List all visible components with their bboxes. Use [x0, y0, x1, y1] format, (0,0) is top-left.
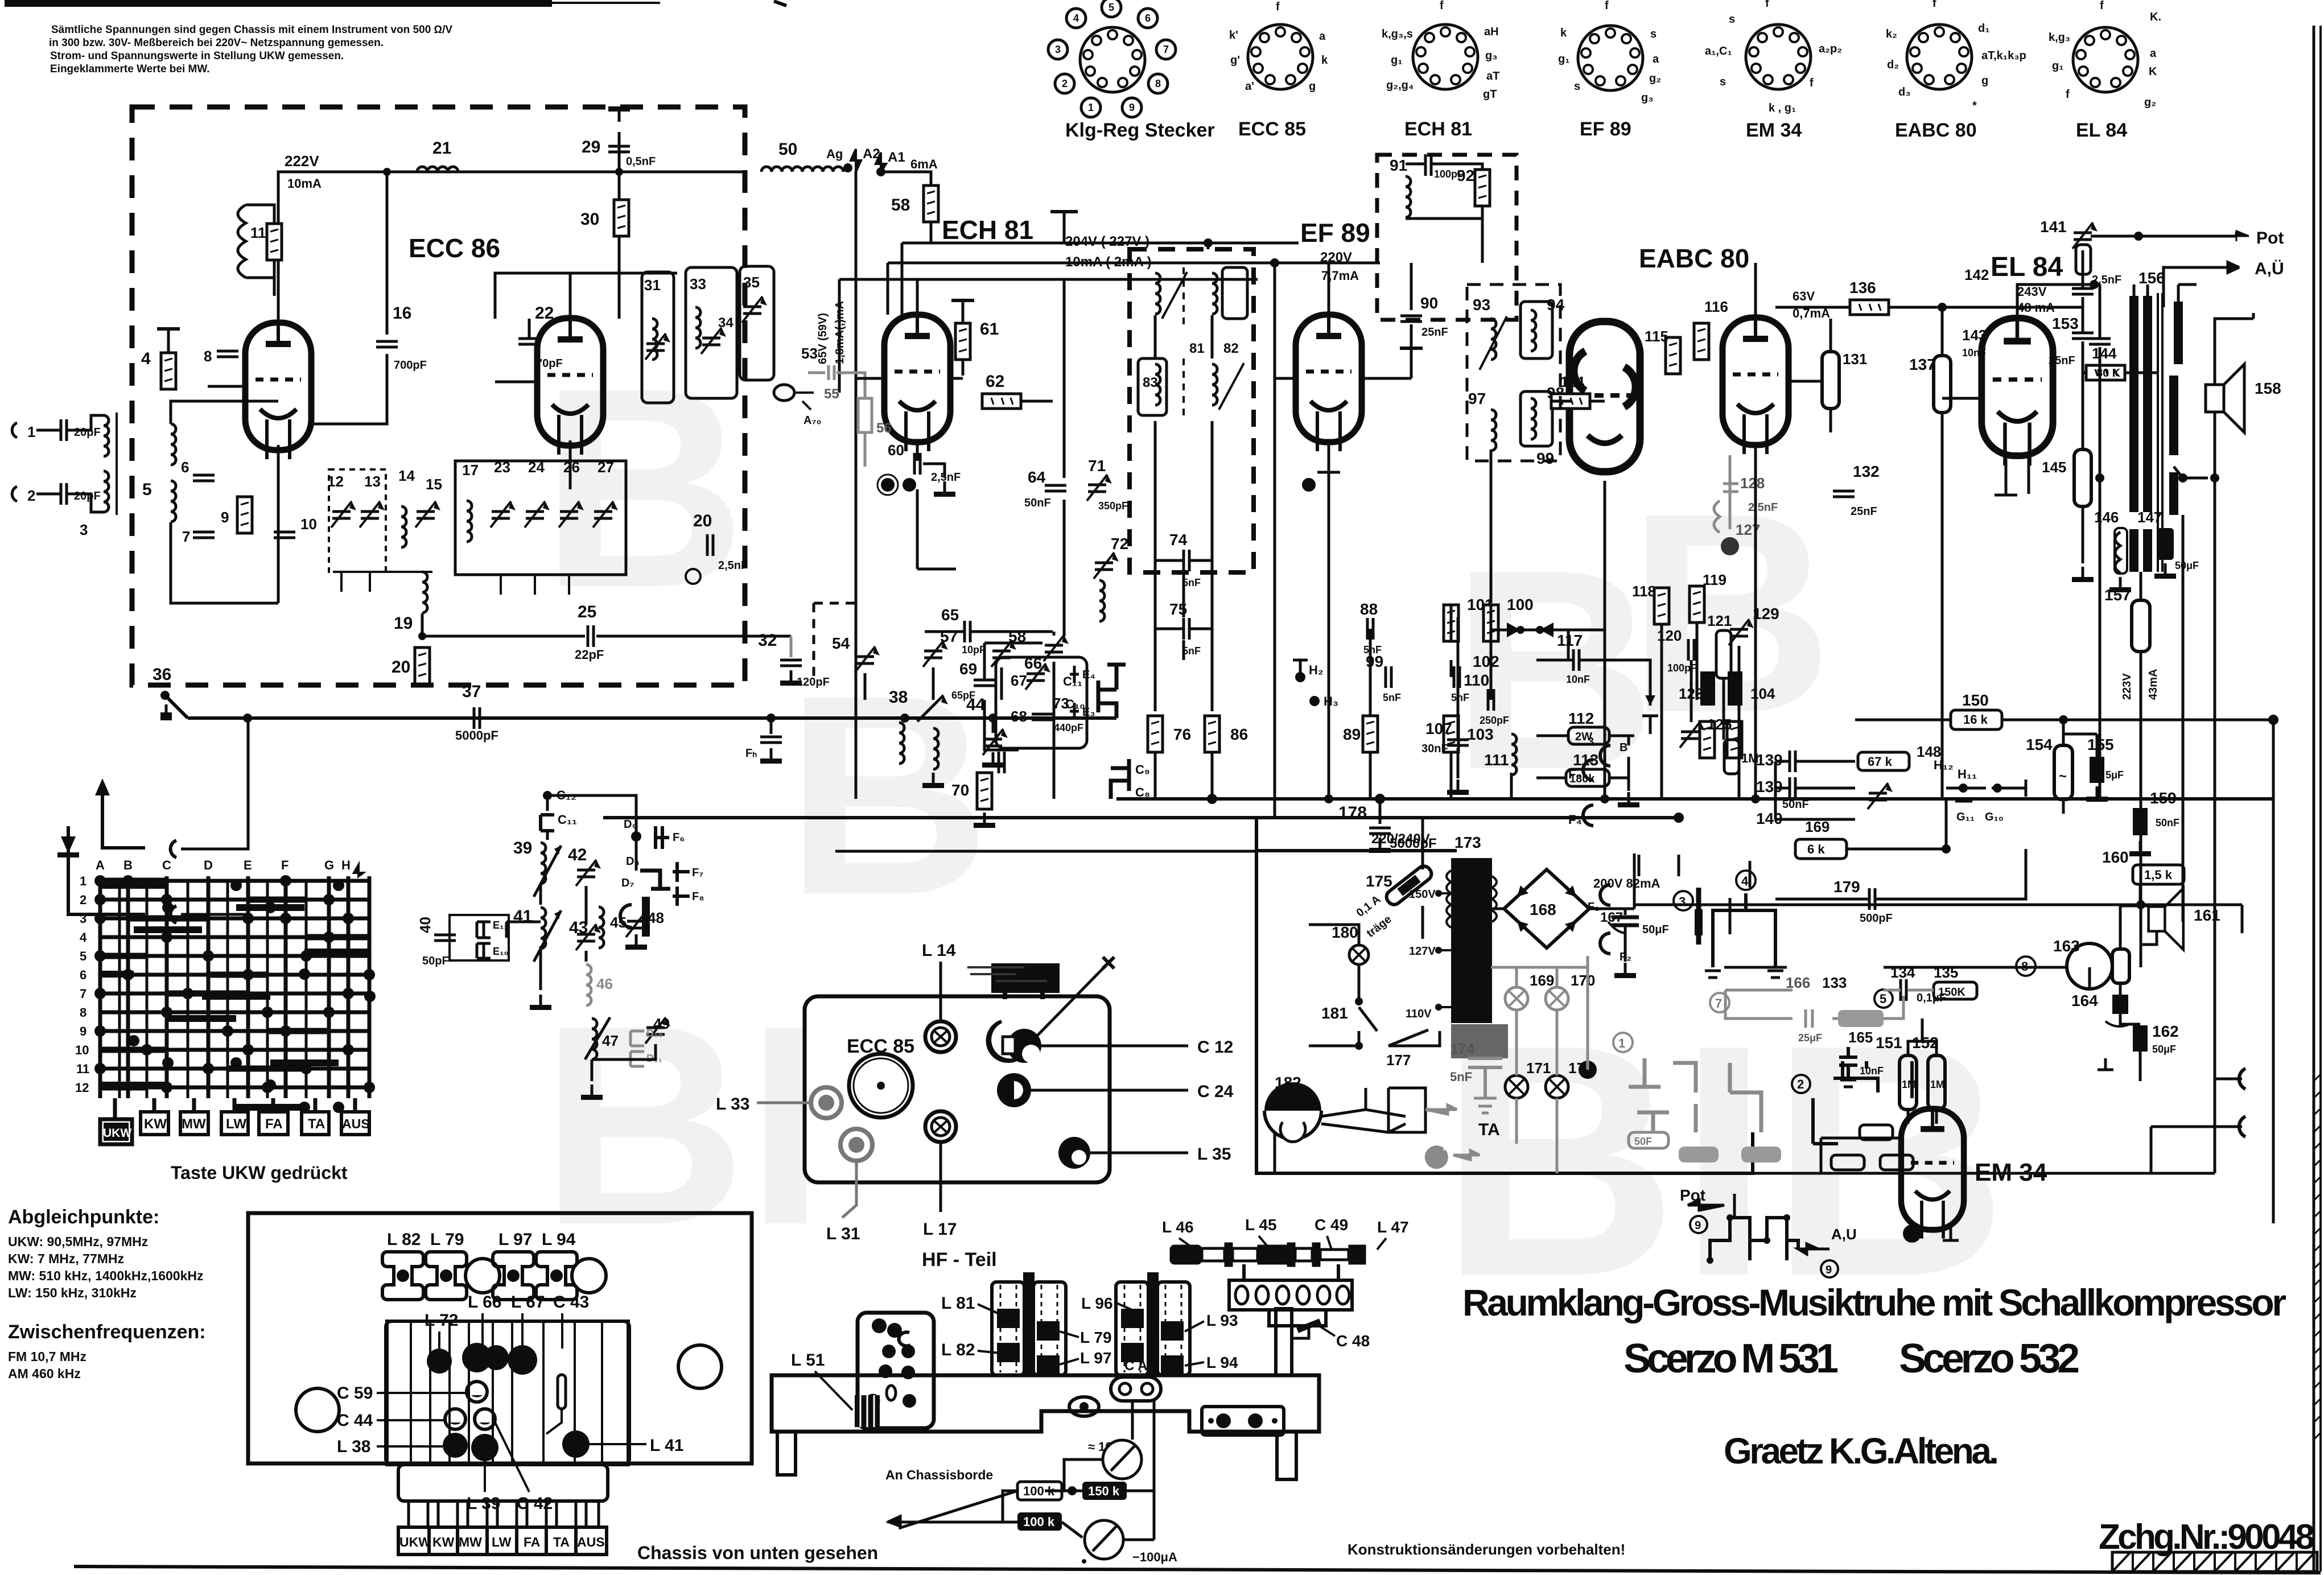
- svg-text:f: f: [1765, 0, 1769, 10]
- svg-text:BI: BI: [541, 966, 825, 1284]
- resistor 62: [982, 394, 1021, 409]
- capacitor 25: [422, 613, 791, 636]
- dashed tuner box ECC86: [132, 107, 745, 685]
- circle 163: [2067, 943, 2112, 989]
- svg-text:6: 6: [80, 968, 86, 982]
- cathode dots: [881, 478, 895, 492]
- svg-text:175: 175: [1366, 872, 1392, 890]
- svg-text:169: 169: [1805, 818, 1829, 835]
- svg-text:Eingeklammerte Werte bei M: Eingeklammerte Werte bei MW.: [50, 63, 210, 75]
- coil dots: [427, 1349, 452, 1374]
- resistor 20: [415, 648, 430, 684]
- svg-text:g₁: g₁: [1558, 53, 1570, 65]
- trimmer C12: [988, 1021, 1019, 1061]
- svg-text:EABC 80: EABC 80: [1895, 119, 1977, 141]
- svg-text:EABC 80: EABC 80: [1639, 244, 1749, 273]
- pushbutton LW: [221, 1112, 248, 1135]
- svg-text:97: 97: [1468, 390, 1486, 407]
- svg-text:133: 133: [1822, 974, 1847, 991]
- svg-text:C 44: C 44: [337, 1411, 373, 1430]
- svg-text:TA: TA: [308, 1116, 325, 1132]
- svg-text:1,5 k: 1,5 k: [2144, 868, 2173, 882]
- capacitor 120: [1688, 639, 1694, 661]
- svg-text:C 24: C 24: [1197, 1082, 1234, 1101]
- tuning capacitor block: [991, 963, 1060, 993]
- coil 91: [1406, 176, 1411, 217]
- svg-text:116: 116: [1704, 298, 1728, 315]
- wires speaker2 net: [2120, 884, 2183, 1081]
- svg-text:171: 171: [1526, 1059, 1551, 1077]
- svg-text:KW: KW: [144, 1116, 167, 1132]
- svg-text:MW: MW: [459, 1535, 482, 1549]
- svg-text:10mA: 10mA: [287, 176, 322, 191]
- svg-text:Konstruktionsänderungen vorb: Konstruktionsänderungen vorbehalten!: [1348, 1541, 1625, 1558]
- svg-text:C A: C A: [1124, 1358, 1147, 1374]
- variable cap 72: [1094, 553, 1119, 579]
- trimmer C24: [997, 1073, 1031, 1107]
- svg-text:178: 178: [1338, 803, 1367, 822]
- capacitor 29: [618, 132, 621, 172]
- svg-text:G: G: [324, 858, 334, 872]
- svg-text:a₁,C₁: a₁,C₁: [1705, 45, 1732, 57]
- resistor 121: [1716, 630, 1731, 678]
- svg-text:4: 4: [1073, 13, 1079, 24]
- svg-text:63V: 63V: [1793, 289, 1815, 303]
- grey compressor jumper network: [1629, 1058, 1761, 1132]
- top border bar: [5, 0, 552, 7]
- svg-text:~: ~: [2059, 769, 2067, 784]
- svg-text:Zwischenfrequenzen:: Zwischenfrequenzen:: [8, 1321, 206, 1343]
- svg-text:An Chassisborde: An Chassisborde: [885, 1467, 993, 1482]
- svg-text:73: 73: [1053, 695, 1069, 712]
- node A1 arrow + 6mA: [876, 152, 886, 172]
- svg-text:20pF: 20pF: [74, 490, 101, 502]
- svg-text:k , g₁: k , g₁: [1769, 102, 1796, 114]
- svg-text:40: 40: [417, 917, 434, 933]
- resistor 144: [2086, 365, 2125, 380]
- capacitor 117: [1573, 649, 1579, 671]
- svg-text:L 35: L 35: [1197, 1145, 1231, 1164]
- resistor 136: [1775, 306, 1849, 309]
- svg-text:67: 67: [1011, 672, 1027, 689]
- svg-text:16: 16: [393, 304, 411, 323]
- svg-text:L 17: L 17: [923, 1220, 957, 1239]
- svg-text:83: 83: [1143, 375, 1158, 390]
- trimmer 148 Hrg: [1868, 783, 1893, 809]
- svg-text:50μF: 50μF: [2152, 1044, 2176, 1055]
- capacitor 63/64 column: [1063, 279, 1066, 636]
- svg-text:9: 9: [1826, 1264, 1832, 1276]
- tube socket EABC 80: [1907, 24, 1972, 89]
- svg-text:4: 4: [1741, 874, 1749, 888]
- 222V supply wire: [278, 172, 745, 276]
- capacitor 40 50pF + E11 E10: [450, 915, 509, 960]
- svg-text:81: 81: [1189, 341, 1205, 356]
- diode D6 black: [642, 897, 650, 937]
- svg-text:5000pF: 5000pF: [455, 728, 498, 743]
- svg-text:11: 11: [76, 1062, 89, 1076]
- capacitor 6: [193, 475, 215, 481]
- resistor 76: [1148, 716, 1163, 752]
- svg-text:89: 89: [1343, 725, 1361, 743]
- svg-text:71: 71: [1088, 457, 1106, 475]
- resistor 100k lower dark: [1017, 1512, 1062, 1531]
- svg-text:440pF: 440pF: [1054, 722, 1083, 733]
- svg-text:L 66: L 66: [468, 1293, 502, 1312]
- svg-text:D: D: [204, 858, 213, 872]
- svg-text:48: 48: [648, 909, 664, 926]
- svg-text:145: 145: [2042, 459, 2066, 476]
- svg-text:200V 82mA: 200V 82mA: [1593, 876, 1660, 890]
- speaker 161: [2149, 888, 2183, 950]
- wire A2 down to mixer grid: [855, 172, 858, 799]
- svg-text:UKW: UKW: [103, 1127, 131, 1140]
- svg-text:56: 56: [876, 420, 892, 436]
- svg-text:115: 115: [1645, 328, 1668, 345]
- svg-text:MW: 510 kHz, 1400kHz,1600kHz: MW: 510 kHz, 1400kHz,1600kHz: [8, 1268, 203, 1283]
- chassis legs: [777, 1432, 796, 1475]
- coil 21: [417, 167, 458, 172]
- svg-text:aT: aT: [1486, 70, 1499, 83]
- svg-text:58: 58: [891, 196, 910, 215]
- oval chassis hole: [1069, 1397, 1099, 1416]
- svg-text:5nF: 5nF: [1450, 1070, 1472, 1084]
- chassis keys MW: [458, 1527, 487, 1555]
- svg-text:C 43: C 43: [553, 1293, 589, 1312]
- wire bus 37: [188, 716, 750, 720]
- svg-text:7: 7: [80, 987, 86, 1001]
- tube connection wires: [208, 279, 2029, 603]
- svg-text:F₆: F₆: [673, 831, 685, 844]
- output jacks: [2239, 1069, 2245, 1089]
- ratio detector coils 93 94: [1491, 319, 1496, 360]
- inner coil module: [387, 1321, 628, 1465]
- ground arrow: [68, 826, 145, 914]
- trimmer 129: [1729, 619, 1754, 645]
- svg-text:AUS: AUS: [342, 1116, 370, 1131]
- svg-text:13: 13: [364, 473, 381, 490]
- coil L33 grey: [811, 1087, 842, 1118]
- svg-text:4: 4: [141, 349, 151, 368]
- svg-text:25: 25: [578, 603, 596, 621]
- svg-text:19: 19: [394, 614, 413, 633]
- svg-text:164: 164: [2071, 992, 2098, 1009]
- svg-text:H₁₁: H₁₁: [1958, 767, 1977, 781]
- svg-text:159: 159: [2150, 789, 2177, 807]
- svg-text:42: 42: [568, 846, 587, 864]
- terminal strip near EM34: [1813, 1061, 1912, 1144]
- svg-text:k₂: k₂: [1886, 28, 1897, 40]
- svg-text:Scerzo 532: Scerzo 532: [1899, 1336, 2080, 1382]
- svg-text:177: 177: [1386, 1052, 1411, 1069]
- resistor 70: [977, 773, 992, 809]
- svg-text:k': k': [1229, 29, 1238, 42]
- svg-text:f: f: [1932, 0, 1936, 10]
- svg-text:14: 14: [398, 467, 415, 484]
- svg-text:1: 1: [1088, 102, 1094, 113]
- bottom tab block: [398, 1465, 608, 1501]
- svg-text:21: 21: [432, 139, 451, 158]
- svg-text:LW: LW: [226, 1116, 246, 1132]
- coil 46: [586, 964, 591, 1005]
- svg-text:6 k: 6 k: [1807, 842, 1825, 856]
- ECC85 hole: [849, 1054, 913, 1118]
- svg-text:s: s: [1574, 80, 1580, 93]
- svg-text:K: K: [2149, 65, 2157, 78]
- svg-text:150: 150: [1962, 691, 1989, 709]
- pushbutton UKW: [100, 1119, 132, 1144]
- svg-text:132: 132: [1853, 463, 1880, 480]
- trimmer coil 33 34: [695, 307, 701, 348]
- svg-text:114: 114: [1560, 373, 1584, 390]
- wires below IF can: [1155, 315, 1212, 572]
- wire EABC diode row: [1458, 450, 1756, 799]
- svg-text:a: a: [2150, 47, 2157, 60]
- svg-text:700pF: 700pF: [394, 359, 427, 372]
- power box outline: [1256, 851, 1753, 1173]
- svg-text:EL 84: EL 84: [2076, 119, 2127, 141]
- svg-text:500pF: 500pF: [1860, 912, 1893, 925]
- svg-text:169: 169: [1530, 972, 1554, 989]
- lamp wiring: [1517, 967, 1588, 1173]
- extra matrix dots: [128, 880, 376, 1113]
- svg-text:10nF: 10nF: [1860, 1065, 1884, 1077]
- chassis keys TA: [546, 1527, 576, 1555]
- osc wires: [506, 795, 656, 1081]
- trimmer coil 35: [742, 296, 767, 323]
- svg-text:C 49: C 49: [1315, 1216, 1348, 1234]
- IF transformer dashed can: [1130, 249, 1254, 572]
- svg-text:67 k: 67 k: [1868, 754, 1893, 769]
- svg-text:D₁₀: D₁₀: [646, 1028, 663, 1039]
- svg-text:11: 11: [250, 224, 266, 241]
- svg-text:F₇: F₇: [692, 867, 703, 879]
- svg-text:31: 31: [644, 277, 661, 294]
- svg-text:6: 6: [1145, 13, 1151, 24]
- resistor 169 6k: [1795, 839, 1847, 859]
- svg-text:L 97: L 97: [1080, 1349, 1112, 1367]
- capacitor 60: [914, 453, 920, 475]
- chassis keys FA: [517, 1527, 546, 1555]
- capacitor 10: [274, 532, 295, 538]
- capacitor 162: [2133, 1025, 2148, 1052]
- trimmer 125: [1680, 721, 1705, 748]
- svg-text:C₁₁: C₁₁: [1063, 674, 1082, 688]
- resistor 61: [955, 323, 970, 360]
- resistor 131: [1822, 352, 1839, 409]
- svg-text:d₃: d₃: [1898, 86, 1910, 98]
- svg-text:FA: FA: [524, 1535, 540, 1549]
- svg-text:5: 5: [1880, 992, 1886, 1006]
- svg-text:50μF: 50μF: [2175, 560, 2199, 571]
- hole circle: [465, 1259, 500, 1293]
- svg-text:5μF: 5μF: [2105, 769, 2124, 781]
- pushbutton KW: [141, 1112, 168, 1135]
- svg-text:C 59: C 59: [337, 1384, 373, 1403]
- svg-text:37: 37: [462, 682, 481, 701]
- svg-text:f: f: [1810, 77, 1814, 89]
- svg-text:50nF: 50nF: [1782, 798, 1809, 811]
- connector C11 C10: [1098, 665, 1126, 718]
- bottom-right wires: [1753, 1138, 2215, 1173]
- svg-text:30nF: 30nF: [1421, 743, 1448, 755]
- svg-text:91: 91: [1390, 156, 1407, 174]
- svg-text:ECC 85: ECC 85: [1238, 118, 1306, 140]
- tube EF89: [1296, 315, 1362, 451]
- svg-text:92: 92: [1457, 167, 1474, 184]
- tube socket ECC 85: [1248, 24, 1313, 89]
- meter 2: [1085, 1520, 1123, 1559]
- tube EL84: [1981, 318, 2053, 465]
- svg-text:L 67: L 67: [511, 1293, 545, 1312]
- svg-text:L 41: L 41: [650, 1436, 684, 1455]
- svg-text:C₁₁: C₁₁: [558, 813, 577, 827]
- svg-text:KW: KW: [432, 1535, 455, 1549]
- svg-text:100 k: 100 k: [1023, 1515, 1055, 1529]
- capacitor 132: [1833, 491, 1855, 497]
- svg-text:Raumklang-Gross-Musiktruhe mit: Raumklang-Gross-Musiktruhe mit Schallkom…: [1462, 1281, 2286, 1324]
- svg-text:D₇: D₇: [621, 877, 634, 889]
- svg-text:g': g': [1230, 54, 1240, 67]
- svg-text:G₁₀: G₁₀: [1985, 811, 2004, 823]
- svg-text:157: 157: [2104, 586, 2131, 604]
- button stubs: [115, 1098, 355, 1119]
- svg-text:A: A: [96, 858, 105, 872]
- svg-text:d₁: d₁: [1978, 22, 1990, 35]
- svg-text:Klg-Reg Stecker: Klg-Reg Stecker: [1065, 119, 1215, 141]
- svg-text:20: 20: [392, 658, 410, 677]
- svg-text:47: 47: [602, 1032, 619, 1049]
- capacitor 16: [386, 172, 389, 335]
- svg-text:146: 146: [2094, 509, 2119, 526]
- svg-text:181: 181: [1321, 1004, 1348, 1022]
- svg-text:6: 6: [181, 459, 189, 476]
- dipole arrow up: [102, 785, 145, 848]
- svg-text:33: 33: [690, 275, 706, 292]
- resistor 100k: [1017, 1482, 1062, 1500]
- coil 5: [171, 424, 176, 465]
- svg-text:151: 151: [1876, 1034, 1902, 1052]
- svg-text:3: 3: [1588, 736, 1594, 748]
- svg-text:90: 90: [1420, 294, 1438, 312]
- svg-text:174: 174: [1450, 1040, 1475, 1057]
- svg-text:117: 117: [1557, 632, 1583, 649]
- svg-text:5: 5: [1109, 2, 1114, 13]
- chassis keys UKW: [398, 1527, 429, 1555]
- svg-text:170: 170: [1571, 972, 1595, 989]
- right border: [2313, 26, 2315, 1572]
- svg-text:Ag: Ag: [826, 147, 843, 161]
- svg-text:Strom- und Spannungswerte in: Strom- und Spannungswerte in Stellung UK…: [50, 50, 344, 62]
- antenna terminal 1: [12, 423, 17, 438]
- svg-text:30: 30: [580, 210, 599, 229]
- svg-text:60: 60: [888, 442, 904, 459]
- input transformer coils 3: [104, 415, 109, 456]
- svg-text:3: 3: [1055, 44, 1061, 55]
- svg-text:103: 103: [1467, 725, 1494, 743]
- svg-text:142: 142: [1964, 266, 1989, 283]
- capacitor 7: [193, 532, 215, 538]
- svg-text:136: 136: [1849, 279, 1876, 296]
- svg-text:F₈: F₈: [692, 890, 704, 903]
- svg-text:g₂: g₂: [1649, 72, 1661, 85]
- svg-text:gT: gT: [1483, 88, 1497, 101]
- svg-text:7: 7: [1163, 44, 1169, 55]
- svg-text:2: 2: [27, 487, 35, 504]
- svg-text:125: 125: [1707, 716, 1732, 733]
- tube EABC80 triode: [1723, 318, 1789, 454]
- svg-text:50F: 50F: [1634, 1136, 1652, 1147]
- svg-text:F: F: [281, 858, 289, 872]
- pushbutton AUS: [341, 1112, 369, 1135]
- dipole terminal 1: [171, 840, 176, 857]
- svg-text:AM 460 kHz: AM 460 kHz: [8, 1366, 81, 1381]
- right border hatch: [2314, 1074, 2321, 1440]
- coil 47: [592, 1019, 597, 1059]
- svg-text:50μF: 50μF: [1642, 923, 1669, 936]
- svg-text:107: 107: [1425, 720, 1452, 737]
- svg-text:5nF: 5nF: [1182, 645, 1201, 657]
- svg-text:ECC 86: ECC 86: [409, 233, 500, 263]
- IF can pair B: [1116, 1282, 1148, 1375]
- svg-text:32: 32: [758, 631, 777, 650]
- oscillator block: cap C12: [543, 791, 552, 800]
- trimmer bank 12 13 14 15: [331, 501, 356, 527]
- capacitor 102: [1454, 666, 1460, 688]
- svg-text:KW: 7 MHz, 77MHz: KW: 7 MHz, 77MHz: [8, 1251, 124, 1266]
- svg-text:UKW: UKW: [399, 1535, 431, 1549]
- svg-text:aT,k₁k₃p: aT,k₁k₃p: [1981, 50, 2026, 62]
- svg-text:C₉: C₉: [1135, 762, 1150, 777]
- svg-text:25nF: 25nF: [1851, 505, 1877, 518]
- F3 F4 terminals: [1583, 760, 1593, 826]
- node Ag: [843, 163, 852, 172]
- svg-text:TA: TA: [553, 1535, 570, 1549]
- triode B of ECC86: [537, 318, 603, 455]
- svg-text:150 k: 150 k: [1088, 1484, 1120, 1498]
- svg-text:g: g: [1309, 80, 1316, 93]
- svg-text:50nF: 50nF: [2156, 817, 2179, 828]
- svg-text:9: 9: [1129, 102, 1135, 113]
- coil board outline: [248, 1213, 752, 1463]
- resistor 115: [1666, 337, 1680, 374]
- svg-text:150K: 150K: [1938, 986, 1965, 999]
- hatched strip: [2112, 1552, 2317, 1572]
- svg-text:50pF: 50pF: [422, 955, 449, 967]
- svg-text:144: 144: [2092, 345, 2117, 362]
- svg-text:34: 34: [718, 315, 734, 331]
- svg-text:F₃: F₃: [1568, 767, 1582, 781]
- svg-text:6mA: 6mA: [910, 157, 938, 171]
- svg-text:Scerzo M 531: Scerzo M 531: [1623, 1336, 1839, 1382]
- svg-text:K.: K.: [2150, 11, 2161, 23]
- svg-text:f: f: [1276, 1, 1280, 13]
- svg-text:179: 179: [1833, 878, 1860, 896]
- IF coil pair 1: [1155, 273, 1160, 314]
- svg-text:g₁: g₁: [1391, 54, 1403, 67]
- svg-text:k: k: [1321, 54, 1328, 67]
- svg-text:5nF: 5nF: [1383, 692, 1401, 703]
- resistor 114: [1551, 394, 1590, 409]
- circled connector numbers: [1674, 891, 1693, 910]
- svg-text:111: 111: [1484, 751, 1509, 769]
- svg-text:EF 89: EF 89: [1300, 218, 1370, 248]
- svg-text:20: 20: [693, 512, 712, 530]
- connector C9 C8: [1111, 759, 1129, 799]
- resistor 119: [1690, 586, 1704, 622]
- wire antenna to input coil: [36, 415, 104, 512]
- capacitor 142: [2082, 250, 2084, 287]
